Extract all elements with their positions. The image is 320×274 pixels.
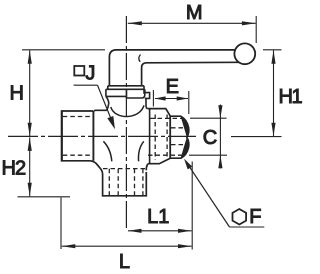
wire H1 top extension xyxy=(263,49,282,51)
svg-text:L: L xyxy=(119,251,130,273)
wire L/L1 extension right xyxy=(191,162,193,250)
svg-text:E: E xyxy=(166,76,179,98)
left port/body joint xyxy=(92,111,94,161)
svg-text:F: F xyxy=(249,206,261,228)
wire dimension H line xyxy=(29,50,31,136)
svg-text:L1: L1 xyxy=(147,206,169,228)
body shoulder left xyxy=(94,109,107,112)
gland plate B xyxy=(106,89,145,96)
wire dimension M line xyxy=(128,22,256,24)
bonnet dome left edge xyxy=(106,96,109,110)
ball pocket lower-left curve xyxy=(103,141,111,161)
svg-text:H1: H1 xyxy=(279,86,303,108)
svg-text:J: J xyxy=(85,63,95,85)
handle slot arc xyxy=(139,55,141,62)
node centerline horizontal (port axis) xyxy=(8,135,196,137)
right port tube hidden lines xyxy=(148,118,185,155)
hidden stud thread lines xyxy=(155,115,167,161)
svg-text:H: H xyxy=(10,83,24,105)
body lower-right fillet xyxy=(146,164,148,171)
stem tab xyxy=(145,93,150,99)
wire dimension H2 line xyxy=(29,137,31,196)
node J callout (square symbol + label + leader) xyxy=(74,66,84,76)
nut facet crescent lower xyxy=(181,137,189,158)
ball pocket top arc xyxy=(111,105,144,116)
wire dimension H1 line xyxy=(273,50,275,136)
left port hidden thread lines xyxy=(63,117,94,156)
wire L dimension line xyxy=(62,245,192,247)
wire H1 bottom extension xyxy=(231,136,282,138)
wire H2 bottom extension xyxy=(18,196,71,198)
body lower-left fillet into bottom port xyxy=(91,161,103,175)
body right face xyxy=(149,109,151,163)
bottom shoulder right xyxy=(148,158,170,163)
bottom port outline xyxy=(103,172,147,196)
handle lever outline xyxy=(109,50,235,86)
wire M extension right xyxy=(255,16,257,43)
bottom port hidden bore lines xyxy=(109,169,143,195)
top shoulder right xyxy=(148,109,170,116)
bonnet dome right edge xyxy=(146,99,148,109)
left port outline xyxy=(62,111,94,161)
nut N1 outline xyxy=(170,116,189,158)
bottom port hidden top line xyxy=(103,168,146,170)
nut left face xyxy=(169,116,171,159)
node F callout (hex symbol + label + leader) xyxy=(233,209,247,225)
left port end face xyxy=(61,110,63,161)
wire dimension C line xyxy=(219,105,221,169)
wire C extension lines xyxy=(190,117,227,119)
svg-text:H2: H2 xyxy=(2,158,26,180)
wire L extension left xyxy=(60,198,62,250)
ball pocket lower-right curve xyxy=(138,141,143,161)
wire L1 dimension line xyxy=(128,230,192,232)
packing block xyxy=(127,89,145,98)
nut facet crescent upper xyxy=(181,116,189,137)
wire E extension lines xyxy=(152,90,154,107)
handle ball end xyxy=(234,43,255,64)
wire dimension E line xyxy=(155,98,188,100)
wire H top extension xyxy=(22,49,105,51)
svg-text:M: M xyxy=(186,2,203,24)
nut hidden thread lines xyxy=(171,128,186,145)
svg-text:C: C xyxy=(203,127,217,149)
node centerline vertical (valve axis) xyxy=(125,16,127,231)
gland flange plate A xyxy=(108,86,144,94)
